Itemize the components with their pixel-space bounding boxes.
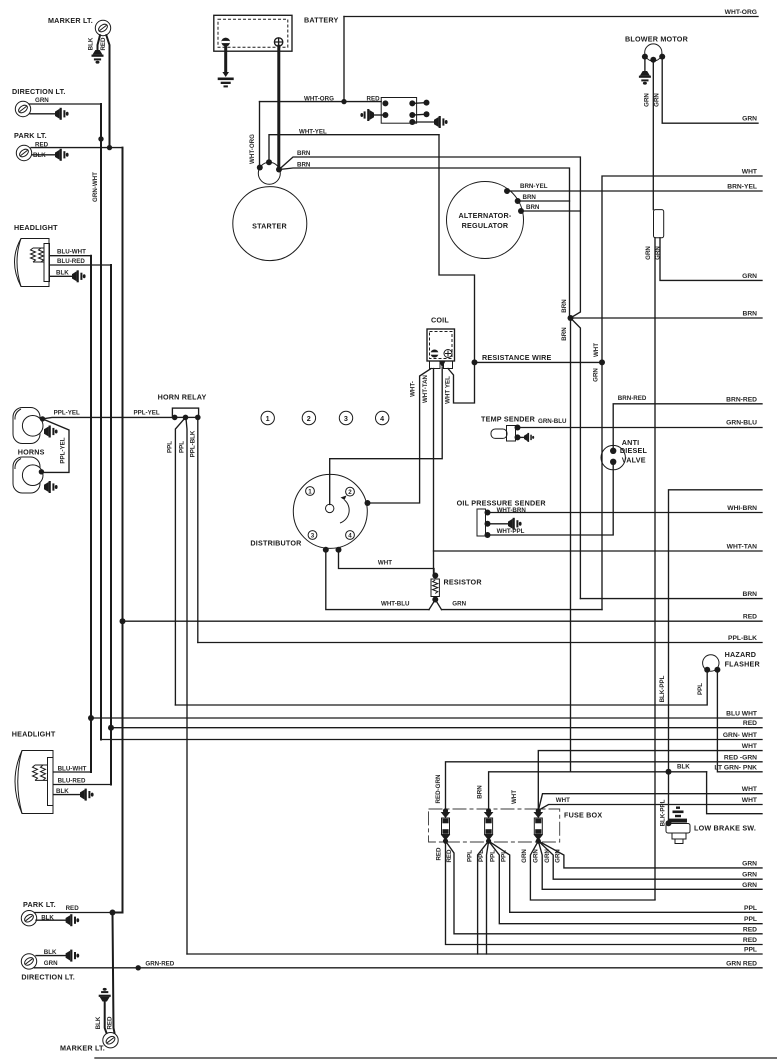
wire BRN below junction to fuse run: [571, 318, 581, 599]
wire GRN fuse3 out 1 to blower riser: [530, 841, 655, 900]
svg-text:GRN: GRN: [533, 849, 540, 863]
svg-text:GRN: GRN: [555, 849, 562, 863]
node 1: [261, 411, 274, 424]
wire marker BLK prong: [98, 35, 101, 50]
svg-text:RESISTOR: RESISTOR: [444, 578, 483, 587]
wire PPL fuse2 out 2: [487, 841, 489, 954]
svg-text:PPL: PPL: [167, 441, 174, 453]
wire BRN 2 starter to alternator branch: [279, 168, 570, 318]
svg-text:WHT: WHT: [556, 797, 570, 804]
distributor pin 2: [346, 487, 355, 496]
wire WHT fuse3 slant feed B to right edge: [539, 805, 762, 811]
svg-text:PPL: PPL: [490, 850, 497, 862]
distributor center: [326, 504, 334, 512]
svg-text:WHT: WHT: [742, 169, 758, 176]
svg-text:GRN: GRN: [452, 601, 466, 608]
svg-text:GRN: GRN: [521, 849, 528, 863]
ground (junction block right): [434, 116, 448, 128]
svg-text:BLU-RED: BLU-RED: [58, 777, 86, 784]
svg-text:WHT-TAN: WHT-TAN: [727, 544, 758, 551]
wire feed from right edge to BLK-PPL vertical: [669, 490, 763, 823]
svg-text:HORN RELAY: HORN RELAY: [158, 393, 207, 402]
wire GRN blower right to right edge: [662, 57, 758, 124]
node 4: [376, 411, 389, 424]
wire PPL horn relay run to right edge: [187, 953, 762, 955]
svg-text:DIESEL: DIESEL: [620, 446, 648, 455]
svg-text:GRN: GRN: [544, 849, 551, 863]
headlight top symbol: [15, 239, 50, 287]
temp sender terminal dots: [515, 425, 521, 431]
wire ground stub (oil sender): [488, 523, 509, 525]
wire trunk A BLU-WHT vertical: [90, 256, 92, 772]
svg-text:2: 2: [348, 489, 352, 496]
svg-text:BRN-RED: BRN-RED: [618, 395, 647, 402]
wire BRN fuse2 feed from BLK junction run: [489, 772, 707, 811]
svg-text:GRN: GRN: [35, 97, 49, 104]
svg-text:BRN-RED: BRN-RED: [726, 396, 757, 403]
junction BLK on BLK-PPL vertical: [666, 769, 672, 775]
oil pressure sender body: [477, 509, 486, 536]
svg-text:BLK: BLK: [33, 152, 46, 159]
park light (top) lamp: [16, 145, 31, 160]
svg-text:GRN: GRN: [742, 872, 757, 879]
svg-text:VALVE: VALVE: [622, 456, 646, 465]
svg-text:PARK LT.: PARK LT.: [14, 131, 47, 140]
svg-text:DIRECTION LT.: DIRECTION LT.: [21, 972, 75, 981]
svg-text:BRN-YEL: BRN-YEL: [727, 184, 757, 191]
coil plug tabs: [430, 361, 441, 369]
svg-text:WHI-BRN: WHI-BRN: [727, 505, 757, 512]
svg-text:BLK-PPL: BLK-PPL: [660, 799, 667, 826]
wire battery positive cable to starter: [277, 46, 280, 169]
junction block pin dots left: [382, 100, 388, 106]
svg-text:FUSE BOX: FUSE BOX: [564, 811, 602, 820]
resistor junction top: [432, 573, 438, 579]
svg-text:DIRECTION LT.: DIRECTION LT.: [12, 87, 66, 96]
svg-text:HEADLIGHT: HEADLIGHT: [12, 730, 56, 739]
svg-text:MARKER LT.: MARKER LT.: [48, 16, 93, 25]
svg-text:BRN-YEL: BRN-YEL: [520, 183, 548, 190]
svg-text:BRN: BRN: [561, 327, 568, 341]
wire PPL-BLK relay to right edge: [198, 642, 762, 644]
headlight bottom symbol: [15, 751, 53, 814]
wire BRN-YEL alternator to right edge: [507, 190, 762, 192]
marker light (bottom) lamp: [103, 1033, 118, 1048]
battery box: [214, 15, 292, 51]
junction block box: [381, 98, 416, 124]
wire BLU-RED headlight bottom to trunk C: [54, 784, 112, 786]
distributor pin 4: [346, 531, 355, 540]
junction block pin dots right: [409, 100, 415, 106]
distributor circle: [293, 474, 367, 548]
junction trunk A y718: [88, 715, 94, 721]
GRN inline connector: [654, 210, 664, 238]
svg-text:FLASHER: FLASHER: [725, 660, 761, 669]
anti diesel valve terminal dots: [610, 448, 616, 454]
wire WHT fuse3 slant feed A to right edge: [539, 794, 762, 810]
ground (junction block left, mirrored): [360, 109, 374, 121]
resistor junction bottom: [432, 597, 438, 603]
wire coil HT lead to distributor center: [330, 368, 443, 505]
battery terminal negative: [221, 38, 230, 47]
horn 1 terminal dot: [40, 416, 45, 421]
svg-text:BRN: BRN: [526, 204, 540, 211]
svg-text:RED-GRN: RED-GRN: [435, 774, 442, 803]
wire marker RED prong down to park-red junction: [106, 35, 109, 147]
svg-text:WHT-ORG: WHT-ORG: [725, 9, 757, 16]
wire battery feed vertical to WHT-ORG junction: [343, 17, 345, 102]
horn 1 symbol: [13, 408, 43, 444]
svg-text:PPL-YEL: PPL-YEL: [54, 410, 80, 417]
svg-text:WHT: WHT: [593, 343, 600, 357]
wire BRN corner to right edge (y 598.6): [580, 598, 762, 600]
wire valve bottom to WHT-PPL run: [488, 462, 614, 535]
battery terminal positive: [274, 38, 282, 46]
resistor body: [431, 579, 439, 597]
wire trunk C BLU-RED vertical: [110, 265, 112, 785]
svg-text:HORNS: HORNS: [18, 448, 45, 457]
wire resistor bottom slants: [429, 600, 442, 610]
junction trunk D / marker feed: [110, 910, 116, 916]
wire BRN junction branch to right edge: [571, 317, 763, 319]
wire relay PPL-BLK vertical: [197, 417, 199, 642]
svg-text:WHT: WHT: [742, 797, 758, 804]
wire RED from park light to trunk D corner: [31, 147, 123, 149]
svg-text:PPL: PPL: [697, 683, 704, 695]
wire BRN alternator mid to BRN2 vertical: [518, 200, 570, 202]
svg-text:4: 4: [380, 414, 384, 423]
svg-text:RED: RED: [743, 720, 757, 727]
svg-text:BLOWER MOTOR: BLOWER MOTOR: [625, 35, 689, 44]
wire GRN connector branch to right edge: [660, 238, 762, 281]
svg-text:1: 1: [308, 488, 312, 495]
svg-text:GRN: GRN: [742, 882, 757, 889]
svg-text:GRN: GRN: [742, 273, 757, 280]
svg-text:LOW BRAKE SW.: LOW BRAKE SW.: [694, 824, 756, 833]
ground (horn 2): [44, 481, 58, 493]
wire BRN vertical continues to fuse 2 feed: [570, 318, 572, 772]
svg-text:BLK-PPL: BLK-PPL: [659, 675, 666, 702]
svg-text:PPL-YEL: PPL-YEL: [60, 437, 67, 463]
wire BLK headlight bottom ground stub: [54, 794, 81, 796]
svg-text:GRN: GRN: [654, 93, 661, 107]
svg-text:RESISTANCE WIRE: RESISTANCE WIRE: [482, 353, 552, 362]
wire trunk B GRN-WHT vertical: [100, 104, 102, 740]
svg-text:BRN: BRN: [743, 311, 758, 318]
wire resistance wire horizontal: [475, 361, 603, 363]
svg-text:GRN: GRN: [44, 960, 58, 967]
wire WHT-BRN to right edge: [488, 512, 763, 514]
svg-text:BLK: BLK: [56, 270, 69, 277]
svg-text:WHT: WHT: [742, 743, 758, 750]
horn 2 symbol: [13, 457, 43, 493]
wire RED fuse1 out 2: [446, 841, 763, 934]
wire RED battery junction to connector block: [344, 101, 381, 103]
svg-text:DISTRIBUTOR: DISTRIBUTOR: [250, 538, 302, 547]
svg-text:PARK LT.: PARK LT.: [23, 900, 56, 909]
marker light (bottom) ground: [99, 988, 111, 1002]
wire ground stub (park top): [32, 154, 55, 156]
wire ground stub (temp sender): [518, 436, 525, 438]
wire BLU-RED headlight top to trunk C: [50, 264, 112, 266]
page bottom rule: [95, 1057, 777, 1059]
wire PPL relay to hazard flasher: [175, 670, 707, 706]
svg-text:GRN: GRN: [645, 246, 652, 260]
junction block jumper top right: [412, 102, 426, 105]
svg-text:PPL: PPL: [744, 916, 757, 923]
svg-text:BLK: BLK: [44, 949, 57, 956]
svg-text:WHT-PPL: WHT-PPL: [497, 528, 525, 535]
svg-text:2: 2: [307, 414, 311, 423]
svg-text:GRN: GRN: [742, 860, 757, 867]
svg-text:BRN: BRN: [297, 150, 311, 157]
wire WHT from right edge down (x602): [602, 176, 762, 610]
svg-text:WHT: WHT: [378, 560, 392, 567]
wire BRN alternator low to BRN1 vertical: [521, 210, 580, 212]
junction resistance wire right: [599, 359, 605, 365]
svg-text:BRN: BRN: [743, 591, 758, 598]
coil terminal negative: [431, 350, 439, 358]
anti diesel valve circle: [601, 445, 625, 469]
svg-text:HAZARD: HAZARD: [725, 650, 757, 659]
svg-text:PPL: PPL: [501, 850, 508, 862]
svg-text:BRN: BRN: [561, 299, 568, 313]
wire BRN 1 starter to vertical: [279, 157, 580, 318]
wire PPL fuse2 out 1: [478, 841, 489, 954]
wire RED-GRN fuse1 feed from right edge: [446, 762, 763, 811]
wire WHT-ORG top to right edge: [344, 16, 758, 18]
wire WHT distributor 4 to resistor top: [339, 550, 435, 576]
svg-text:RED: RED: [436, 847, 443, 861]
svg-text:GRN-BLU: GRN-BLU: [538, 418, 567, 425]
junction trunk C y727.7: [108, 725, 114, 731]
svg-text:LT GRN- PNK: LT GRN- PNK: [714, 764, 757, 771]
svg-text:WHT: WHT: [742, 786, 758, 793]
ground (temp sender, small): [524, 433, 534, 442]
wire trunk D RED vertical: [113, 148, 123, 913]
ground (direction light bottom): [66, 950, 80, 962]
junction GRN-RED start: [136, 965, 141, 970]
starter motor circle: [233, 187, 307, 261]
wire LT GRN-PNK hazard right terminal to right edge: [717, 670, 762, 772]
svg-text:BLK: BLK: [95, 1016, 102, 1029]
svg-text:WHT-BLU: WHT-BLU: [381, 601, 410, 608]
distributor side terminal dot: [365, 500, 371, 506]
wire horn1-horn2 link PPL-YEL: [41, 419, 69, 473]
hazard flasher circle: [703, 655, 719, 671]
wire WHT-ORG vertical down to starter: [259, 102, 261, 168]
wire GRN blower mid down to connector: [652, 60, 654, 210]
wire RED trunk D branch to right edge: [123, 620, 763, 622]
wire horn1 to PPL-YEL feed: [43, 417, 175, 419]
blower terminal dots: [642, 54, 648, 60]
svg-text:RED: RED: [107, 1016, 114, 1030]
node 3: [339, 411, 352, 424]
svg-text:WHT: WHT: [511, 790, 518, 804]
horn 2 terminal dot: [39, 469, 44, 474]
svg-text:RED: RED: [743, 926, 757, 933]
coil box: [427, 329, 455, 361]
wire WHT fuse3 feed to right edge (y750.6): [538, 751, 762, 811]
svg-text:RED: RED: [446, 849, 453, 863]
oil pressure sender terminal dots: [485, 510, 491, 516]
svg-text:COIL: COIL: [431, 316, 449, 325]
distributor pin 1: [306, 487, 315, 496]
wire ground stub (junction block left): [374, 114, 385, 116]
svg-text:GRN-RED: GRN-RED: [145, 960, 174, 967]
svg-text:WHT-: WHT-: [410, 381, 417, 397]
wire RED trunk C branch to right edge: [111, 727, 762, 729]
ground (park light top): [55, 149, 69, 161]
svg-text:HEADLIGHT: HEADLIGHT: [14, 223, 58, 232]
junction marker-red / park-red: [107, 145, 112, 150]
junction WHT-ORG: [341, 99, 346, 104]
svg-text:PPL-YEL: PPL-YEL: [134, 410, 160, 417]
svg-text:BLU WHT: BLU WHT: [726, 711, 758, 718]
svg-text:WHT YEL: WHT YEL: [445, 376, 452, 404]
svg-text:RED: RED: [743, 937, 757, 944]
wire BLK jog down to right edge: [707, 772, 762, 814]
wire PPL fuse2 out 3: [489, 841, 762, 924]
wire WHT-ORG horizontal to starter drop: [260, 101, 345, 103]
park light (bottom) lamp: [21, 911, 36, 926]
svg-text:3: 3: [344, 414, 348, 423]
wire PPL fuse2 out 4: [489, 841, 762, 912]
distributor pin 3: [308, 531, 317, 540]
svg-text:GRN-BLU: GRN-BLU: [726, 420, 757, 427]
junction BRN: [568, 315, 574, 321]
alternator terminal dots: [504, 188, 510, 194]
marker light (top) lamp: [95, 20, 110, 35]
wire relay PPL 2 (vertical long): [186, 417, 187, 954]
svg-text:RED: RED: [100, 37, 107, 51]
svg-text:GRN RED: GRN RED: [726, 960, 757, 967]
wire RED marker feed down: [113, 913, 115, 1034]
svg-text:GRN- WHT: GRN- WHT: [723, 732, 758, 739]
wire RED park bottom to trunk D corner: [35, 912, 113, 914]
node 2: [302, 411, 315, 424]
wire WHT- from coil to distributor side terminal: [368, 369, 432, 504]
wire GRN connector main down to fuse area: [654, 238, 656, 900]
ground (horn 1): [44, 426, 58, 438]
svg-text:REGULATOR: REGULATOR: [462, 221, 509, 230]
svg-text:BLK: BLK: [677, 763, 690, 770]
svg-text:GRN: GRN: [593, 368, 600, 382]
wire RED fuse1 out 1: [446, 841, 763, 945]
svg-text:GRN-WHT: GRN-WHT: [92, 172, 99, 202]
wire distributor 3 down to WHT-BLU run: [326, 550, 429, 610]
starter solenoid terminal dots: [257, 165, 263, 171]
wire GRN-BLU temp sender to right edge: [518, 427, 763, 429]
svg-text:BRN: BRN: [477, 785, 484, 799]
low brake switch symbol: [666, 807, 690, 844]
wire ground stub (junction block right): [412, 121, 434, 123]
svg-text:WHT-ORG: WHT-ORG: [249, 134, 256, 164]
wire GRN fuse3 out 3: [538, 841, 762, 879]
low brake switch terminal dot: [666, 820, 672, 826]
svg-text:PPL: PPL: [744, 947, 757, 954]
svg-text:RED: RED: [66, 905, 80, 912]
coil terminal positive: [444, 350, 452, 358]
distributor rotor arrow: [340, 500, 349, 523]
wire WHT-TAN branch to right edge (y551): [434, 550, 763, 552]
wire GRN from direction light to trunk corner: [29, 103, 101, 105]
distributor bottom terminal dots: [323, 547, 329, 553]
svg-text:GRN: GRN: [742, 116, 757, 123]
svg-text:BLU-WHT: BLU-WHT: [57, 249, 86, 256]
ground (headlight top): [72, 270, 86, 282]
svg-text:PPL: PPL: [179, 441, 186, 453]
svg-text:BATTERY: BATTERY: [304, 16, 339, 25]
svg-text:PPL-BLK: PPL-BLK: [728, 635, 757, 642]
svg-text:ALTERNATOR-: ALTERNATOR-: [459, 211, 512, 220]
direction light (bottom) lamp: [21, 954, 36, 969]
starter solenoid circle: [258, 162, 280, 184]
fuse F1: [441, 808, 451, 844]
wire GRN / GRN-RED direction bottom to right edge: [35, 967, 763, 969]
wire relay PPL 1 (slant + vertical to hazard feed): [175, 417, 185, 705]
wire GRN resistor to WHT/GRN vertical: [442, 609, 603, 611]
svg-text:PPL-BLK: PPL-BLK: [190, 430, 197, 457]
wire ground stub (park bottom): [36, 919, 66, 921]
svg-text:PPL: PPL: [467, 850, 474, 862]
svg-text:RED: RED: [743, 614, 757, 621]
svg-text:MARKER LT.: MARKER LT.: [60, 1044, 105, 1053]
alternator circle: [447, 182, 524, 259]
horn relay box: [172, 408, 198, 417]
svg-text:TEMP SENDER: TEMP SENDER: [481, 415, 536, 424]
junction trunk D y621: [120, 618, 126, 624]
blower motor circle: [645, 44, 662, 61]
svg-text:BLU-RED: BLU-RED: [57, 258, 85, 265]
horn relay terminal dots: [172, 415, 178, 421]
svg-text:RED -GRN: RED -GRN: [724, 754, 757, 761]
wire GRN-WHT trunk B corner to right edge: [101, 739, 762, 741]
fuse F2: [484, 808, 494, 844]
ground (battery): [218, 72, 234, 87]
wire WHT-YEL jog to coil positive: [439, 135, 475, 403]
wire GRN fuse3 out 2: [538, 841, 762, 889]
svg-text:GRN: GRN: [644, 93, 651, 107]
fuse box outline: [429, 809, 560, 842]
svg-text:1: 1: [266, 414, 270, 423]
direction light (top) lamp: [15, 101, 30, 116]
svg-text:BLK: BLK: [88, 37, 95, 50]
wire blower ground lead: [644, 57, 646, 71]
wire BLU-WHT trunk A branch to right edge: [91, 717, 762, 719]
hazard flasher terminal dots: [704, 667, 710, 673]
ground (headlight bottom): [80, 789, 94, 801]
junction block jumper mid right: [412, 113, 426, 116]
svg-text:BRN: BRN: [523, 194, 537, 201]
wire BLK headlight top ground stub: [50, 275, 73, 277]
wire BLU-WHT headlight top to trunk A: [50, 255, 92, 257]
wire GRN fuse3 out 4: [538, 841, 762, 868]
ground (direction light top): [55, 108, 69, 120]
svg-text:WHT-TAN: WHT-TAN: [422, 374, 429, 403]
wire ground stub (direction bottom): [36, 955, 66, 957]
ground (park light bottom): [66, 914, 80, 926]
ground (oil pressure sender): [508, 518, 522, 530]
wire BLU-WHT headlight bottom to trunk A: [54, 771, 92, 773]
temp sender symbol: [491, 426, 516, 442]
svg-text:3: 3: [311, 532, 315, 539]
ground (marker light top): [92, 50, 104, 64]
fuse F3: [534, 808, 544, 844]
junction direction GRN trunk: [98, 136, 103, 141]
wire ground stub (direction top): [30, 113, 55, 115]
svg-text:PPL: PPL: [744, 905, 757, 912]
